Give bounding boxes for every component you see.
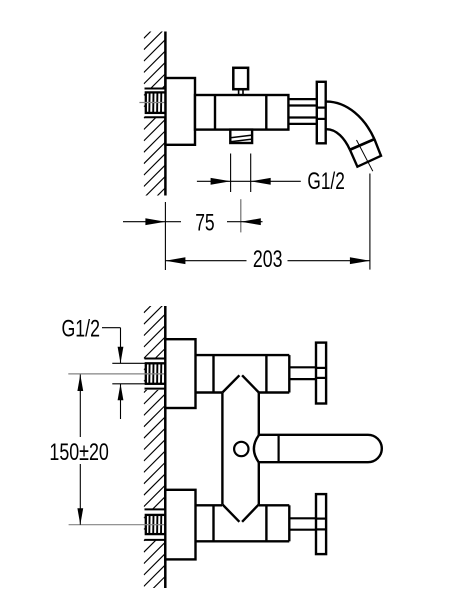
body section line 2 (side view)	[265, 95, 267, 130]
wall extension line	[164, 202, 166, 270]
valve stem (side view)	[288, 98, 317, 100]
cold flange (front view)	[165, 490, 195, 560]
svg-text:G1/2: G1/2	[62, 315, 100, 342]
body column top chamfer	[222, 375, 239, 392]
G1/2 extension lines (front view)	[112, 362, 146, 364]
hot supply tube	[196, 354, 290, 356]
cartridge screw circle	[234, 442, 248, 456]
mixer body (side view)	[195, 95, 288, 130]
cold handle hub lines	[316, 517, 326, 519]
body column right edge	[258, 393, 260, 436]
body section line 1 (side view)	[214, 95, 216, 130]
cold supply tube	[196, 540, 290, 542]
spout tip extension line	[369, 174, 371, 270]
G1/2 leader line (front view)	[102, 327, 121, 329]
hot cross handle	[316, 343, 326, 404]
G1/2 extension lines (side view)	[230, 154, 232, 193]
shower outlet (side view)	[230, 130, 252, 143]
150 dimension line upper	[77, 375, 83, 392]
knob stem (side view)	[238, 89, 240, 95]
spout inner curve	[326, 129, 350, 150]
cold valve stem	[289, 517, 316, 519]
wall face line (front view)	[164, 306, 167, 588]
75 dimension line	[123, 221, 165, 223]
hot flange (front view)	[165, 339, 195, 408]
svg-text:G1/2: G1/2	[307, 168, 344, 195]
wall face line (side view)	[164, 32, 167, 196]
lever hub junction line	[278, 435, 280, 462]
203 dimension line	[165, 257, 185, 264]
lever handle bar	[259, 435, 382, 462]
hot inlet centerline	[68, 373, 178, 375]
spout outer curve	[326, 102, 374, 140]
wall flange (side view)	[166, 78, 196, 145]
lever hub dome	[254, 435, 259, 462]
cold cross handle	[316, 494, 326, 554]
spout end cap line	[350, 139, 375, 150]
spout tip axis line	[357, 140, 373, 171]
G1/2 dimension line (side view)	[197, 180, 231, 182]
inlet centerline (side view)	[139, 102, 174, 104]
G1/2 lower arrow (front view)	[118, 384, 124, 401]
svg-text:150±20: 150±20	[49, 438, 109, 465]
cross handle (side view)	[317, 82, 326, 144]
150 dimension line lower	[79, 464, 81, 525]
cold inlet centerline	[69, 524, 175, 526]
hot inlet nipple (front view)	[145, 359, 166, 390]
svg-text:203: 203	[253, 245, 283, 272]
cold inlet nipple (front view)	[145, 509, 166, 540]
diverter knob (side view)	[233, 68, 248, 89]
inlet nipple (side view)	[145, 89, 166, 118]
svg-text:75: 75	[195, 210, 214, 236]
hot valve stem	[289, 366, 316, 368]
handle hub lines (side view)	[317, 106, 326, 108]
body column left edge	[221, 393, 223, 505]
outlet centerline extension	[240, 199, 242, 232]
hot handle hub lines	[316, 367, 326, 369]
spout aerator tip	[350, 139, 381, 167]
body column bottom chamfer	[222, 504, 239, 521]
